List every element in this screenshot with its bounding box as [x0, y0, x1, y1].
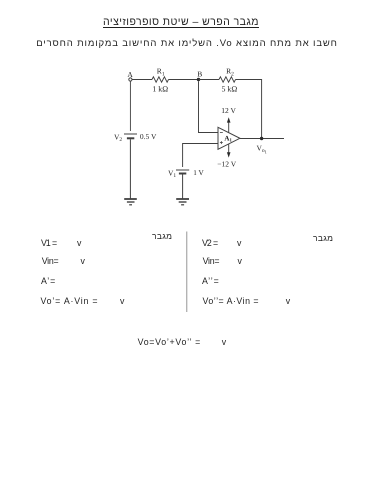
- wire R1 to node B: [169, 79, 199, 81]
- svg-text:V2: V2: [114, 132, 122, 143]
- svg-text:1 kΩ: 1 kΩ: [152, 84, 168, 93]
- op-amp plus input marker: [220, 141, 223, 144]
- ground under V1: [176, 199, 189, 205]
- svg-text:R2: R2: [226, 67, 234, 78]
- label node B: [197, 69, 202, 78]
- wire V2 to ground: [129, 139, 131, 198]
- subtitle: [36, 39, 338, 49]
- label value 5 kOhm: [222, 84, 238, 93]
- battery V2: [124, 134, 137, 138]
- svg-text:12 V: 12 V: [221, 106, 236, 115]
- svg-text:V1: V1: [168, 168, 176, 179]
- wire A down to V2: [129, 81, 131, 131]
- divider line between answer columns: [186, 232, 188, 313]
- label Vo1: [257, 144, 267, 155]
- power -12V arrow: [227, 144, 231, 158]
- answers: right column: [313, 234, 333, 243]
- label R1: [157, 67, 165, 78]
- svg-text:5 kΩ: 5 kΩ: [222, 84, 238, 93]
- wire output line: [240, 138, 284, 140]
- resistor R1: [152, 77, 169, 82]
- label 12 V: [221, 106, 236, 115]
- wire A to R1: [132, 79, 152, 81]
- wire B to R2: [199, 79, 220, 81]
- op-amp U A1 triangle: [218, 127, 240, 149]
- svg-text:Vo1: Vo1: [257, 144, 267, 155]
- label -12 V: [217, 160, 236, 169]
- wire V1 to ground: [182, 175, 184, 199]
- label V1: [168, 168, 176, 179]
- svg-text:B: B: [197, 69, 202, 78]
- svg-text:R1: R1: [157, 67, 165, 78]
- answers: left column: [152, 232, 172, 241]
- power +12V arrow: [227, 117, 231, 132]
- label value 1 kOhm: [152, 84, 168, 93]
- title: [103, 17, 259, 28]
- bottom sum line: [138, 338, 201, 347]
- label R2: [226, 67, 234, 78]
- wire R2 to right corner and down to output: [236, 80, 262, 139]
- wire V1 to plus input: [183, 144, 218, 168]
- svg-text:1 V: 1 V: [193, 169, 204, 177]
- resistor R2: [219, 77, 236, 82]
- battery V1: [176, 170, 189, 174]
- svg-text:−12 V: −12 V: [217, 160, 236, 169]
- op-amp minus input marker: [220, 132, 223, 134]
- wire feedback from B to minus input: [199, 81, 219, 132]
- node A: [129, 78, 132, 81]
- label V2: [114, 132, 122, 143]
- label node A: [127, 70, 133, 79]
- ground under V2: [124, 199, 137, 205]
- label value 0.5 V: [140, 132, 157, 141]
- label value 1 V: [193, 169, 204, 177]
- node Vo1 junction: [260, 137, 263, 140]
- node B: [197, 78, 200, 81]
- svg-text:0.5 V: 0.5 V: [140, 132, 157, 141]
- svg-text:A1: A1: [224, 134, 232, 143]
- label op-amp A1: [224, 134, 232, 143]
- svg-text:A: A: [127, 70, 133, 79]
